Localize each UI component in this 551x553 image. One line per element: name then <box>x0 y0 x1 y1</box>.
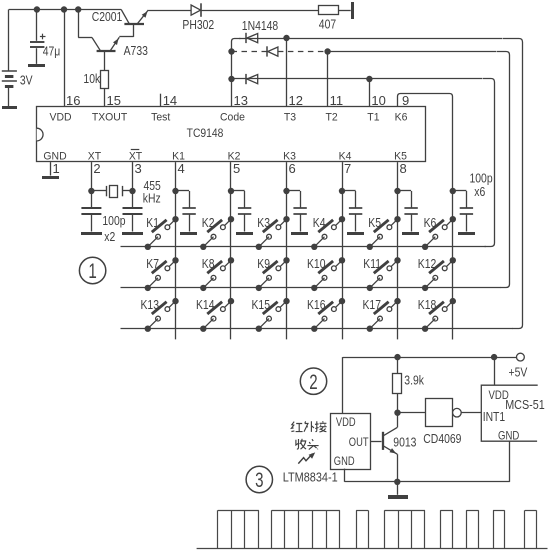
wire wrap right 3 (row3 to keys row1) <box>483 79 495 247</box>
wire to CD4069 input <box>398 412 426 414</box>
capacitor 100p column 5 <box>398 190 412 192</box>
wire T2 pin11 riser <box>327 52 329 107</box>
ground (battery) <box>2 106 17 109</box>
switch K6 <box>450 216 456 222</box>
svg-text:3V: 3V <box>20 74 33 88</box>
capacitor C3 100p (XTbar) <box>123 207 143 209</box>
node column 6 cap junction <box>450 188 456 194</box>
svg-text:K14: K14 <box>196 298 215 312</box>
wire Code pin13 riser <box>232 39 241 107</box>
svg-text:K7: K7 <box>146 257 159 271</box>
svg-text:3.9k: 3.9k <box>404 373 424 387</box>
node pin11 junction <box>324 48 330 54</box>
IR receiver module U3 LTM8834-1 <box>331 414 371 470</box>
svg-text:14: 14 <box>163 93 177 108</box>
ground (cap col 2) <box>236 232 253 235</box>
ground (9013 emitter) <box>388 495 408 499</box>
switch K14 <box>228 298 234 304</box>
wire VDD pin16 <box>64 10 66 107</box>
node C (driver junction) <box>75 6 81 12</box>
switch K5 <box>394 216 400 222</box>
node A (cap 47u junction) <box>34 6 40 12</box>
wire LTM VDD to rail <box>342 357 344 413</box>
wire key row 1 <box>121 246 487 248</box>
IC notch <box>37 128 43 141</box>
svg-text:6: 6 <box>289 161 296 176</box>
svg-text:4: 4 <box>178 161 185 176</box>
svg-text:K16: K16 <box>307 298 326 312</box>
wire column 5 (pin 8) <box>397 162 399 339</box>
svg-text:T2: T2 <box>326 111 338 123</box>
svg-text:x6: x6 <box>474 185 485 199</box>
switch K4 <box>339 216 345 222</box>
svg-text:MCS-51: MCS-51 <box>505 397 545 412</box>
svg-text:15: 15 <box>107 93 121 108</box>
svg-text:INT1: INT1 <box>483 411 505 424</box>
waveform pulse 3 <box>356 510 358 548</box>
svg-text:VDD: VDD <box>49 111 71 123</box>
switch K1 <box>172 216 178 222</box>
svg-text:K1: K1 <box>146 216 159 230</box>
svg-text:3: 3 <box>135 161 142 176</box>
svg-text:10: 10 <box>371 93 385 108</box>
wire key row 2 <box>121 287 502 289</box>
ground (C2) <box>81 232 102 235</box>
capacitor 100p column 2 <box>231 190 245 192</box>
wire T1 pin10 riser <box>369 79 371 107</box>
label hongwaijie (Chinese) <box>291 422 294 432</box>
svg-text:K15: K15 <box>252 298 271 312</box>
IR zigzag arrow <box>298 454 312 464</box>
wire 407 to supply bar <box>338 10 350 12</box>
node MCS VDD rail junction <box>491 354 497 360</box>
svg-text:K6: K6 <box>395 111 408 123</box>
diode D1 PH302 infrared LED <box>191 5 201 15</box>
capacitor C2 100p (XT) <box>81 207 101 209</box>
waveform burst 4 <box>384 510 386 548</box>
supply terminal bar <box>351 2 354 19</box>
node label 1 (circled) <box>79 257 105 283</box>
svg-text:PH302: PH302 <box>182 18 214 32</box>
wire to A733 collector <box>78 10 80 38</box>
diode D3 1N4148 <box>266 46 268 56</box>
switch K12 <box>450 257 456 263</box>
node XT junction <box>88 188 94 194</box>
ground (cap col 4) <box>347 232 364 235</box>
switch K3 <box>283 216 289 222</box>
diode D2 1N4148 <box>245 33 247 43</box>
wire GND pin1 <box>50 162 52 175</box>
wire wrap right 1 (row1 to keys row3) <box>503 39 523 329</box>
node 3.9k rail junction <box>394 354 400 360</box>
svg-text:VDD: VDD <box>336 416 356 429</box>
capacitor C1 47u polarized <box>36 10 38 41</box>
inverter U2 CD4069 <box>426 399 453 427</box>
node label 2 (circled) <box>300 368 326 394</box>
transistor Q1 C2001 <box>121 10 129 24</box>
svg-text:1: 1 <box>53 161 60 176</box>
label shoutou (Chinese) <box>296 439 299 449</box>
wire top rail (+3V) <box>9 9 122 11</box>
svg-text:TC9148: TC9148 <box>187 128 224 141</box>
svg-text:13: 13 <box>234 93 248 108</box>
svg-text:5: 5 <box>233 161 240 176</box>
wire XTbar pin3 <box>132 162 134 208</box>
transistor Q3 9013 <box>382 432 384 450</box>
pin 14 Test stub <box>160 94 162 107</box>
svg-text:1: 1 <box>88 259 96 283</box>
svg-text:3: 3 <box>255 468 263 492</box>
wire column 2 (pin 5) <box>230 162 232 339</box>
diode row 2 wire to wrap <box>328 51 496 53</box>
node column 3 cap junction <box>283 188 289 194</box>
svg-text:12: 12 <box>289 93 303 108</box>
svg-text:8: 8 <box>400 161 407 176</box>
node label 3 (circled) <box>246 466 272 492</box>
node B (pin16 junction) <box>61 6 67 12</box>
switch K10 <box>339 257 345 263</box>
ground (pin1) <box>42 176 59 179</box>
switch K7 <box>172 257 178 263</box>
wire MCS GND down <box>509 441 511 482</box>
svg-text:K12: K12 <box>418 257 436 271</box>
switch K16 <box>339 298 345 304</box>
svg-text:K17: K17 <box>363 298 381 312</box>
switch K8 <box>228 257 234 263</box>
svg-text:x2: x2 <box>104 230 115 244</box>
svg-text:OUT: OUT <box>349 436 369 449</box>
svg-text:K18: K18 <box>418 298 437 312</box>
capacitor 100p column 4 <box>342 190 356 192</box>
wire 10k to TXOUT pin15 <box>104 89 106 107</box>
svg-text:100p: 100p <box>470 172 494 186</box>
IC U1 TC9148 body <box>37 107 426 162</box>
svg-text:T3: T3 <box>284 111 296 123</box>
resistor R3 3.9k <box>397 357 399 373</box>
svg-text:A733: A733 <box>124 44 149 58</box>
diode row 2 dashed wire <box>232 51 267 53</box>
svg-text:7: 7 <box>344 161 351 176</box>
svg-text:GND: GND <box>498 430 519 443</box>
svg-text:9013: 9013 <box>393 435 417 449</box>
svg-text:kHz: kHz <box>143 191 161 205</box>
svg-text:407: 407 <box>319 17 336 31</box>
svg-text:K8: K8 <box>202 257 215 271</box>
switch K18 <box>450 298 456 304</box>
diode D4 1N4148 <box>245 74 247 84</box>
waveform pulse 6 <box>466 510 468 548</box>
wire wrap right 2 (row2 to keys row2) <box>497 52 510 288</box>
svg-text:2: 2 <box>309 369 317 393</box>
MCU U4 MCS-51 <box>481 385 537 441</box>
capacitor 100p column 6 <box>453 190 467 192</box>
svg-text:C2001: C2001 <box>92 10 123 24</box>
node XTbar junction <box>129 188 135 194</box>
waveform pulse 5 <box>440 510 442 548</box>
svg-text:K2: K2 <box>202 216 215 230</box>
switch K17 <box>394 298 400 304</box>
svg-text:TXOUT: TXOUT <box>92 111 128 123</box>
svg-text:GND: GND <box>334 455 355 468</box>
node row3-pin13 junction <box>228 76 234 82</box>
svg-text:T1: T1 <box>367 111 379 123</box>
terminal +5V <box>517 353 525 361</box>
node emitter-gnd junction <box>394 479 400 485</box>
wire LTM OUT to base <box>371 441 382 443</box>
node pin10 junction <box>366 76 372 82</box>
ground (cap col 1) <box>180 232 197 235</box>
wire column 3 (pin 6) <box>286 162 288 339</box>
svg-text:K3: K3 <box>257 216 270 230</box>
svg-text:9: 9 <box>402 93 409 108</box>
wire MCS VDD to rail <box>494 357 496 385</box>
wire LTM GND down <box>344 469 346 482</box>
wire T3 pin12 riser <box>286 38 288 107</box>
svg-text:K6: K6 <box>424 216 437 230</box>
switch K9 <box>283 257 289 263</box>
svg-text:K4: K4 <box>313 216 326 230</box>
capacitor 100p column 1 <box>176 190 190 192</box>
diode row 3 wire <box>232 78 483 80</box>
svg-text:LTM8834-1: LTM8834-1 <box>283 469 338 484</box>
svg-text:+5V: +5V <box>509 366 528 380</box>
ground (47u cap) <box>28 64 45 67</box>
ground (cap col 6) <box>458 232 475 235</box>
wire +5V rail <box>343 357 517 359</box>
transistor Q2 A733 <box>92 38 101 52</box>
svg-text:10k: 10k <box>83 72 100 86</box>
node column 1 cap junction <box>172 188 178 194</box>
svg-text:CD4069: CD4069 <box>423 432 461 446</box>
node column 5 cap junction <box>394 188 400 194</box>
node collector junction <box>394 410 400 416</box>
switch K13 <box>172 298 178 304</box>
waveform burst 1 <box>217 510 219 548</box>
svg-text:1N4148: 1N4148 <box>242 19 279 33</box>
wire column 1 (pin 4) <box>175 162 177 339</box>
wire K6 pin9 wrap <box>398 94 453 340</box>
diode row 2 dashed wire b <box>278 51 328 53</box>
svg-text:Code: Code <box>220 111 245 123</box>
svg-text:11: 11 <box>330 93 344 108</box>
wire column 4 (pin 7) <box>342 162 344 339</box>
wire XT pin2 <box>91 162 93 208</box>
waveform baseline <box>197 548 548 550</box>
node pin12 junction <box>283 35 289 41</box>
svg-text:K10: K10 <box>307 257 326 271</box>
ground (C3) <box>122 232 143 235</box>
ground (cap col 5) <box>402 232 419 235</box>
node column 2 cap junction <box>228 188 234 194</box>
battery B1 3V <box>8 10 10 71</box>
resistor R2 407 <box>319 6 339 15</box>
node column 4 cap junction <box>339 188 345 194</box>
svg-text:2: 2 <box>93 161 100 176</box>
svg-text:16: 16 <box>66 93 80 108</box>
svg-text:100p: 100p <box>102 214 126 228</box>
waveform burst 2 <box>271 510 273 548</box>
wire common gnd <box>345 481 510 483</box>
node row2-pin13 junction <box>228 48 234 54</box>
wire emitter to PH302 <box>148 10 191 12</box>
capacitor 100p column 3 <box>287 190 301 192</box>
svg-text:47μ: 47μ <box>43 44 61 58</box>
svg-text:K5: K5 <box>368 216 381 230</box>
svg-text:K9: K9 <box>257 257 270 271</box>
switch K11 <box>394 257 400 263</box>
ground (cap col 3) <box>291 232 308 235</box>
resistor R1 10k <box>101 71 109 89</box>
switch K15 <box>283 298 289 304</box>
crystal X1 455kHz <box>91 190 106 192</box>
waveform pulse 8 <box>524 510 526 548</box>
wire key row 3 <box>121 328 514 330</box>
diode row 1 wire <box>239 38 502 40</box>
waveform pulse 7 <box>493 510 495 548</box>
svg-text:Test: Test <box>151 111 170 123</box>
switch K2 <box>228 216 234 222</box>
svg-text:K13: K13 <box>141 298 160 312</box>
svg-text:K11: K11 <box>363 257 381 271</box>
